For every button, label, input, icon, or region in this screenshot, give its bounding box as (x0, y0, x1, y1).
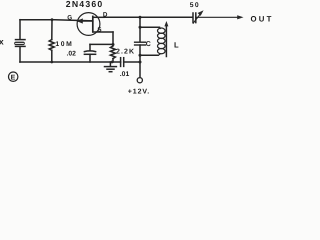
wire: gate net from crystal top to Q1 gate (20, 20, 93, 21)
svg-text:E: E (11, 75, 16, 82)
transistor Q1 gate lead with arrow (76, 18, 92, 23)
wire: C2 top stem (89, 44, 91, 50)
wire: coil bottom horizontal (140, 54, 158, 56)
node: drain net / tank top junction (139, 16, 142, 19)
svg-text:2.2K: 2.2K (116, 48, 135, 55)
svg-text:2N4360: 2N4360 (66, 0, 104, 9)
svg-text:.02: .02 (67, 51, 77, 58)
capacitor C2 .02 (84, 51, 95, 54)
wire: ground rail bottom (20, 61, 121, 63)
inductor L1 tuning arrow (164, 21, 168, 57)
wire: R1 top lead (51, 20, 53, 40)
wire: tank bottom vertical to rail (139, 55, 141, 62)
wire: C2 bottom stem (89, 54, 91, 62)
wire: C1 bottom to coil bottom junction (139, 45, 141, 55)
svg-text:+12V.: +12V. (128, 89, 150, 96)
svg-text:L: L (174, 41, 179, 50)
svg-text:G: G (67, 15, 72, 22)
node: tank / coil top junction (139, 26, 142, 29)
svg-text:C: C (146, 41, 151, 48)
transistor Q1 2N4360 JFET body circle (77, 13, 100, 36)
wire: source vertical to bypass junction (112, 32, 114, 45)
node: gate junction with R1 (51, 18, 54, 21)
svg-text:.01: .01 (120, 71, 130, 78)
svg-text:OUT: OUT (251, 14, 274, 23)
svg-text:10M: 10M (55, 41, 73, 48)
wire: tank vertical to C1 (139, 27, 141, 42)
wire: tank vertical upper (139, 17, 141, 27)
crystal X (14, 40, 25, 47)
node: +12V junction on rail (139, 61, 142, 64)
inductor L1 L (158, 27, 166, 55)
svg-text:50: 50 (190, 2, 200, 9)
node: R1 bottom on rail (50, 61, 53, 64)
node: R2 / ground junction (111, 61, 114, 64)
capacitor C3 .01 (supply bypass, in rail) (121, 58, 124, 67)
wire: rail from C3 to +12V node (124, 61, 140, 63)
capacitor C1 C (135, 42, 146, 45)
wire: output lead with arrow (196, 15, 244, 19)
resistor R2 2.2K (110, 46, 115, 59)
svg-text:x: x (0, 36, 4, 46)
wire: +12V stub (139, 62, 141, 77)
ground (105, 62, 117, 72)
svg-text:S: S (97, 26, 101, 33)
wire: drain net to output coupling cap (104, 16, 192, 18)
transistor Q1 drain stub (93, 16, 104, 18)
wire: crystal bottom lead (19, 47, 21, 62)
resistor R1 10M (49, 40, 54, 51)
wire: R2 bottom lead (112, 59, 114, 62)
capacitor C4 50 (variable output coupling) (193, 10, 204, 23)
transistor Q1 channel bar (92, 16, 94, 31)
node: +12V terminal circle (137, 78, 142, 83)
wire: coil top horizontal (140, 26, 160, 28)
wire: R1 bottom lead (51, 50, 53, 62)
transistor Q1 source stub (93, 31, 113, 33)
node E : figure part label (9, 72, 18, 82)
wire: crystal top lead (19, 20, 21, 39)
node: source bypass junction (112, 43, 115, 46)
wire: junction to C2 top (90, 43, 113, 45)
node: coil bottom junction (139, 54, 142, 57)
